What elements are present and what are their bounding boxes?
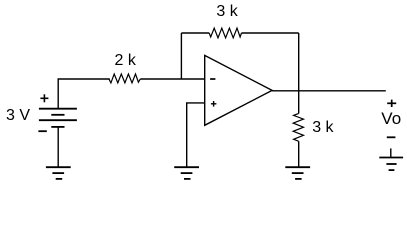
wire feedback top left segment [181, 32, 209, 34]
battery plus sign [40, 94, 48, 102]
op-amp noninverting input marker [211, 101, 217, 107]
resistor R2 3k feedback [209, 28, 241, 38]
wire noninverting input [187, 103, 205, 167]
ground (noninverting input) [174, 167, 199, 179]
op-amp inverting input marker [210, 78, 215, 80]
resistor R3 3k load [293, 113, 303, 141]
svg-text:3 V: 3 V [6, 107, 30, 124]
ground (battery) [46, 167, 71, 179]
resistor R1 2k [109, 74, 140, 83]
wire output junction down to resistor R3 [298, 91, 300, 114]
wire feedback right vertical [298, 33, 300, 91]
voltage source V1 3V [39, 109, 77, 127]
wire resistor R3 to ground [298, 141, 300, 167]
output plus sign [387, 100, 396, 107]
output minus sign [387, 136, 396, 138]
wire feedback top right segment [242, 32, 299, 34]
svg-text:3 k: 3 k [312, 119, 334, 136]
svg-text:Vo: Vo [381, 109, 401, 128]
svg-text:3 k: 3 k [216, 3, 238, 20]
wire feedback left vertical [180, 33, 182, 79]
ground (Vo reference) [379, 148, 403, 170]
wire op-amp output [272, 90, 386, 92]
wire battery top to corner [58, 79, 110, 109]
battery minus sign [38, 130, 46, 132]
ground (load) [285, 167, 310, 179]
wire battery bottom to ground [57, 127, 59, 167]
op-amp U1 [205, 55, 272, 125]
wire resistor R1 to op-amp inverting input [140, 78, 204, 80]
svg-text:2 k: 2 k [115, 52, 137, 69]
